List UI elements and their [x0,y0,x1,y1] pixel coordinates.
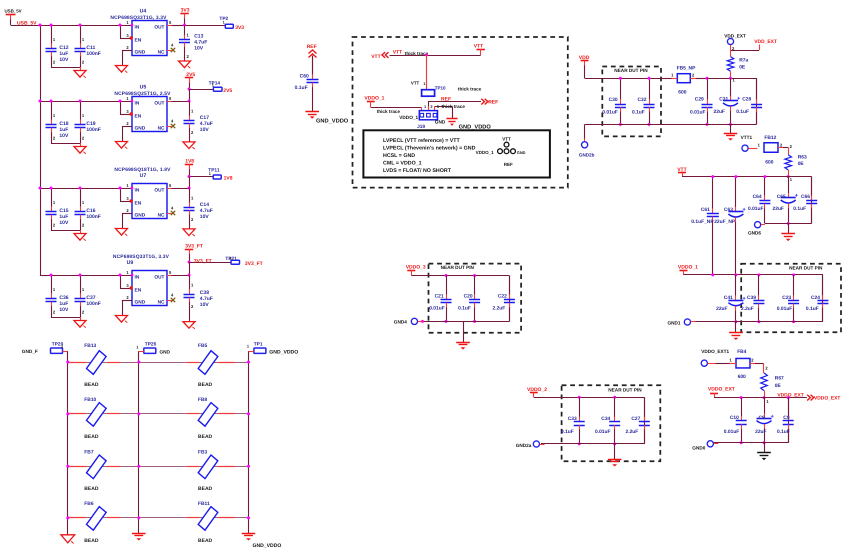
svg-text:BEAD: BEAD [198,434,213,440]
ground row2 caps [80,143,82,147]
svg-text:NCP698SQ33T1G, 3.3V: NCP698SQ33T1G, 3.3V [113,254,170,260]
svg-text:GND2b: GND2b [579,153,595,158]
svg-text:EN: EN [135,38,142,44]
capacitor C66 [811,177,813,224]
ferrite bead FB8 [198,403,218,427]
ground GND_VDDO C60 [305,111,319,113]
notes box [363,130,550,177]
svg-text:VDDO_EXT: VDDO_EXT [708,387,735,393]
svg-text:VDD_EXT: VDD_EXT [724,33,746,38]
capacitor C10 [741,398,743,417]
svg-text:C41: C41 [724,295,733,301]
svg-text:EN: EN [135,288,142,294]
dashed box NEAR DUT PIN VDD [602,67,661,137]
capacitor C61 [712,177,714,209]
svg-text:R7a: R7a [739,58,748,64]
connector GND2a [533,441,539,447]
svg-text:IN: IN [135,188,140,194]
svg-text:C22: C22 [498,293,507,299]
svg-text:C61: C61 [701,207,710,213]
svg-text:3V3: 3V3 [235,25,244,31]
svg-text:0E: 0E [775,383,782,389]
off-page connector REF [481,99,484,105]
wire row4 input [40,275,132,277]
svg-text:TP26: TP26 [145,342,157,348]
ground VDDO_1 return [735,322,737,333]
wire bead row 4 [68,517,249,519]
svg-text:C31: C31 [719,97,728,103]
svg-text:U7: U7 [140,173,147,179]
svg-text:BEAD: BEAD [84,486,99,492]
svg-text:0.1uF: 0.1uF [793,206,806,212]
svg-text:0.01uF: 0.01uF [690,110,706,116]
svg-text:22uF: 22uF [773,206,784,212]
svg-text:+: + [737,96,740,102]
ferrite bead FB11 [198,507,218,531]
svg-text:GND_F: GND_F [22,349,38,354]
pin 3 EN U7 [120,188,122,201]
capacitor C16 [80,188,82,207]
wire OUT to TP2 [185,25,226,27]
capacitor C65 [788,177,790,194]
svg-text:EN: EN [135,114,142,120]
svg-text:LVPECL (Thevenin's network) =: LVPECL (Thevenin's network) = GND [383,146,476,152]
svg-text:GND: GND [435,120,446,125]
svg-text:VDDO_1: VDDO_1 [678,264,698,270]
dashed box NEAR DUT PIN VDDO_1 [741,264,841,333]
svg-text:10V: 10V [200,127,210,133]
wire row3 cap return [51,230,80,232]
wire bead row 1 [68,362,249,364]
svg-text:GND: GND [135,50,146,56]
wire row2 cap return [51,143,80,145]
svg-text:2.2uF: 2.2uF [626,429,639,435]
capacitor C28 [756,78,758,124]
svg-text:TP10: TP10 [435,86,446,91]
svg-text:22uF_NP: 22uF_NP [714,219,736,225]
wire input rail vertical [40,25,42,275]
wire VDDO_3 rail [411,275,509,277]
ground GND_VDDO J19 [446,118,457,120]
svg-text:BEAD: BEAD [198,538,213,544]
junction row1 rail [39,24,42,27]
svg-text:100nF: 100nF [86,301,100,307]
svg-text:VTT: VTT [411,81,420,86]
wire J19 pin3 to ground [434,106,436,110]
capacitor C14 [189,188,191,203]
svg-text:NCP698SQ33T1G, 3.3V: NCP698SQ33T1G, 3.3V [110,15,167,21]
wire VDDO_EXT rail [714,397,807,399]
wire TP21 branch [189,262,231,264]
svg-text:BEAD: BEAD [198,382,213,388]
regulator U4 [132,21,167,56]
capacitor C27 [644,397,646,444]
svg-text:0.01uF: 0.01uF [429,306,445,312]
capacitor C22 [509,276,511,322]
svg-text:+: + [771,414,774,420]
svg-text:GND2a: GND2a [516,443,532,448]
svg-text:VDDO_EXT1: VDDO_EXT1 [701,349,729,354]
svg-text:10V: 10V [59,57,69,63]
wire row2 input [40,101,132,103]
svg-text:U9: U9 [127,260,134,266]
ferrite bead FB13 [87,351,107,375]
ground row1 caps [80,67,82,71]
svg-text:0E: 0E [739,64,746,70]
svg-text:100nF: 100nF [86,127,100,133]
capacitor C30 [620,78,622,99]
capacitor C39 [758,275,760,296]
svg-text:GND_VDDO: GND_VDDO [269,350,298,356]
svg-text:C27: C27 [631,416,640,422]
regulator U5 [132,97,167,132]
net label VDD_EXT [731,50,760,52]
dashed box NEAR DUT PIN VDDO_3 [429,264,522,333]
ground VDDO_3 [463,321,465,342]
svg-text:NC: NC [158,126,165,132]
svg-text:GND0: GND0 [692,445,705,450]
capacitor C19 [80,101,82,120]
svg-text:GND_VDDO: GND_VDDO [316,118,349,124]
wire VDDO_1 to J19 pin1 [371,107,422,109]
svg-text:VTT: VTT [393,49,402,55]
capacitor C12 [51,25,53,44]
regulator U7 [132,184,167,219]
off-page connector VDDO_EXT [807,395,810,401]
svg-text:C24: C24 [811,295,820,301]
svg-text:NC: NC [158,300,165,306]
svg-text:0.01uF: 0.01uF [595,429,611,435]
svg-text:REF: REF [488,100,498,106]
svg-text:NEAR DUT PIN: NEAR DUT PIN [614,68,648,73]
svg-text:VTT: VTT [474,43,483,49]
ground C17 [183,142,195,149]
wire VDDO_3 return [421,321,509,323]
resistor R7a [727,57,734,72]
capacitor C41 [735,275,737,296]
dashed box NEAR DUT PIN VDDO_2 [562,385,661,461]
svg-text:R63: R63 [798,154,807,160]
capacitor C9 [788,398,790,443]
svg-text:VTT: VTT [502,137,511,142]
svg-text:10V: 10V [59,307,69,313]
svg-text:FB5_NP: FB5_NP [677,66,696,72]
ground GND rail [132,533,146,535]
svg-text:LVDS = FLOAT/ NO SHORT: LVDS = FLOAT/ NO SHORT [383,168,452,174]
svg-text:NEAR DUT PIN: NEAR DUT PIN [441,265,475,270]
svg-text:VDDO_1: VDDO_1 [399,115,418,120]
svg-text:GND4: GND4 [394,319,407,324]
svg-text:FB12: FB12 [764,135,776,141]
connector GND6 [755,222,761,228]
svg-text:NCP698SQ25T1G, 2.5V: NCP698SQ25T1G, 2.5V [114,91,171,97]
wire row3 input [40,188,132,190]
svg-text:BEAD: BEAD [84,538,99,544]
wire VDDO_2 return [541,443,644,445]
svg-text:VDDO_EXT: VDDO_EXT [777,392,803,398]
pin 5 OUT U7 [167,188,172,190]
connector GND2b [584,124,586,139]
ground U7 GND pin [116,229,128,236]
svg-text:U4: U4 [140,8,147,14]
wire TP11 branch [189,176,213,178]
capacitor C13 [184,25,186,35]
svg-text:BEAD: BEAD [198,486,213,492]
svg-text:FB11: FB11 [198,501,210,507]
svg-text:OUT: OUT [154,25,164,31]
wire VTT to TP10 [426,55,428,90]
svg-text:FB4: FB4 [737,349,747,355]
svg-text:+: + [743,207,746,213]
svg-text:10V: 10V [200,214,210,220]
wire VDD top rail [585,78,757,80]
pin 5 OUT U4 [167,25,172,27]
capacitor C60 [312,56,314,75]
svg-text:IN: IN [135,25,140,31]
svg-text:0.1uF: 0.1uF [806,306,819,312]
dashed box VTT REF network [353,37,568,188]
capacitor C21 [446,276,448,295]
capacitor C20 [474,276,476,295]
test point TP21 [231,260,240,264]
svg-text:600: 600 [738,374,746,380]
svg-text:FB8: FB8 [198,397,208,403]
svg-text:C29: C29 [695,97,704,103]
wire row1 cap return [51,67,80,69]
svg-text:REF: REF [504,162,513,167]
capacitor C18 [51,101,53,120]
svg-text:thick trace: thick trace [377,109,401,114]
wire VDDO_1 rail [684,274,823,276]
svg-text:VTT1: VTT1 [741,135,753,140]
svg-text:EN: EN [135,201,142,207]
svg-text:C65: C65 [777,194,786,200]
svg-text:BEAD: BEAD [84,382,99,388]
svg-text:HCSL = GND: HCSL = GND [383,153,415,159]
svg-text:thick trace: thick trace [442,104,466,109]
pin 2 GND U5 [122,126,132,128]
ground U5 GND pin [116,142,128,149]
svg-text:22uF: 22uF [714,109,725,115]
pin 2 GND U4 [122,50,132,52]
svg-text:C20: C20 [464,293,473,299]
connector GND1 [684,319,690,325]
ground row3 caps [80,230,82,234]
pin 4 NC U4 [167,50,172,52]
svg-text:0.01uF: 0.01uF [777,306,793,312]
svg-text:C21: C21 [435,293,444,299]
svg-text:GND_VDDO: GND_VDDO [253,543,282,549]
pin 2 GND U9 [122,300,132,302]
capacitor C31 [730,78,732,96]
test point TP14 [213,87,222,91]
svg-text:0.1uF: 0.1uF [295,85,308,91]
svg-text:VDD_EXT: VDD_EXT [754,39,777,45]
svg-text:FB3: FB3 [198,449,208,455]
ground C14 [183,229,195,236]
svg-text:FB7: FB7 [84,449,94,455]
ground VDDO_EXT black earth [764,443,766,453]
ground VDD rail [730,124,732,133]
svg-text:1V8: 1V8 [224,176,233,182]
capacitor C33 [579,397,581,417]
svg-text:OUT: OUT [154,101,164,107]
svg-text:FB5: FB5 [198,343,208,349]
capacitor C29 [707,78,709,99]
svg-text:GND: GND [160,350,171,355]
svg-text:C66: C66 [801,194,810,200]
svg-text:0.1uF_NP: 0.1uF_NP [691,219,714,225]
svg-text:10V: 10V [59,220,69,226]
svg-text:600: 600 [765,160,773,166]
ground GND_VDDO rail [242,533,256,535]
capacitor C15 [51,188,53,207]
wire bead row 3 [68,466,249,468]
svg-text:22uF: 22uF [755,429,766,435]
svg-text:100nF: 100nF [86,51,100,57]
svg-text:100nF: 100nF [86,214,100,220]
svg-text:NEAR DUT PIN: NEAR DUT PIN [608,388,642,393]
svg-text:10V: 10V [200,302,210,308]
svg-text:C30: C30 [609,97,618,103]
svg-text:REF: REF [307,44,317,50]
wire VDDO_EXT return [714,442,789,444]
svg-text:U5: U5 [140,84,147,90]
pin 4 NC U9 [167,300,172,302]
capacitor C8 [764,398,766,414]
svg-text:3V3_FT: 3V3_FT [185,243,203,249]
svg-text:C64: C64 [753,194,762,200]
ground U4 GND pin [116,66,128,73]
svg-text:22uF: 22uF [716,306,727,312]
pin 2 GND U7 [122,213,132,215]
svg-text:GND6: GND6 [748,230,761,235]
wire REF to off-page [428,101,481,103]
wire bead row 2 [68,413,249,415]
wire VTT decoupling return [765,223,812,225]
resistor R67 [763,363,765,373]
capacitor C17 [189,101,191,116]
capacitor C37 [80,275,82,294]
svg-text:C39: C39 [747,295,756,301]
wire USB_5V rail [11,25,132,27]
svg-text:FB6: FB6 [84,501,94,507]
pin 3 EN U5 [120,101,122,114]
ground VDDO_2 [614,444,616,459]
capacitor C32 [649,78,651,99]
svg-text:0.1uF: 0.1uF [632,110,645,116]
svg-text:IN: IN [135,275,140,281]
svg-text:GND: GND [517,150,526,155]
svg-text:600: 600 [678,89,686,95]
svg-text:0.1uF: 0.1uF [736,109,749,115]
svg-text:OUT: OUT [154,275,164,281]
svg-text:thick trace: thick trace [458,86,482,91]
svg-text:CML = VDDO_1: CML = VDDO_1 [383,161,422,167]
svg-text:0.1uF: 0.1uF [561,429,574,435]
svg-text:USB_5V: USB_5V [5,8,22,13]
ground GND_F rail [61,535,75,543]
ground VTT return [788,223,790,233]
ferrite bead FB7 [87,455,107,479]
svg-text:GND: GND [135,300,146,306]
svg-text:VDDO_1: VDDO_1 [476,150,495,155]
ferrite bead FB10 [87,403,107,427]
capacitor C11 [80,25,82,44]
header J19 [419,111,437,120]
svg-text:C28: C28 [742,97,751,103]
ground C13 [179,61,191,68]
svg-text:3V3_FT: 3V3_FT [194,258,212,264]
ferrite bead FB3 [198,455,218,479]
ground C38 [183,322,195,329]
svg-text:3V3_FT: 3V3_FT [245,261,263,267]
svg-text:0.1uF: 0.1uF [458,306,471,312]
svg-text:+: + [743,296,746,302]
capacitor C63 [735,177,737,208]
svg-text:VTT: VTT [371,54,380,60]
ground U9 GND pin [116,316,128,323]
svg-text:GND: GND [135,213,146,219]
capacitor C23 [793,275,795,296]
svg-text:+: + [795,193,798,199]
svg-text:TP14: TP14 [209,81,221,87]
svg-text:R67: R67 [775,376,784,382]
pin 4 NC U5 [167,126,172,128]
svg-text:10V: 10V [194,45,204,51]
ground row4 caps [80,317,82,321]
wire VDDO_1 return rail [695,321,823,323]
wire TP14 branch [189,89,213,91]
svg-text:GND1: GND1 [668,320,681,325]
ferrite bead FB5 [198,351,218,375]
wire VTT [390,55,481,57]
svg-text:LVPECL (VTT reference) = VTT: LVPECL (VTT reference) = VTT [383,138,461,144]
svg-text:NC: NC [158,213,165,219]
wire row4 cap return [51,317,80,319]
svg-text:VDDO_EXT: VDDO_EXT [814,396,840,402]
junction row2 rail [39,100,42,103]
svg-text:IN: IN [135,101,140,107]
svg-text:C32: C32 [638,97,647,103]
ferrite bead FB6 [87,507,107,531]
svg-text:OUT: OUT [154,188,164,194]
svg-text:0.1uF: 0.1uF [777,429,790,435]
svg-text:J19: J19 [417,124,425,130]
resistor R63 [788,148,790,155]
svg-text:0.01uF: 0.01uF [748,206,764,212]
connector GND0 [707,441,713,447]
svg-text:2.2uF: 2.2uF [741,306,754,312]
svg-text:0E: 0E [798,161,805,167]
pin 3 EN U4 [120,25,122,38]
regulator U9 [132,271,167,306]
pin 3 EN U9 [120,275,122,288]
svg-text:C8: C8 [759,415,766,421]
capacitor C24 [822,275,824,322]
svg-text:0.01uF: 0.01uF [724,429,740,435]
test point TP2 [225,24,233,28]
capacitor C64 [764,177,766,196]
capacitor C34 [614,397,616,417]
svg-text:C10: C10 [730,415,739,421]
pin 5 OUT U5 [167,101,172,103]
capacitor C36 [51,275,53,294]
svg-text:10V: 10V [59,133,69,139]
junction row3 rail [39,187,42,190]
svg-text:2V5: 2V5 [223,88,232,94]
wire VDDO_2 rail [534,397,645,399]
